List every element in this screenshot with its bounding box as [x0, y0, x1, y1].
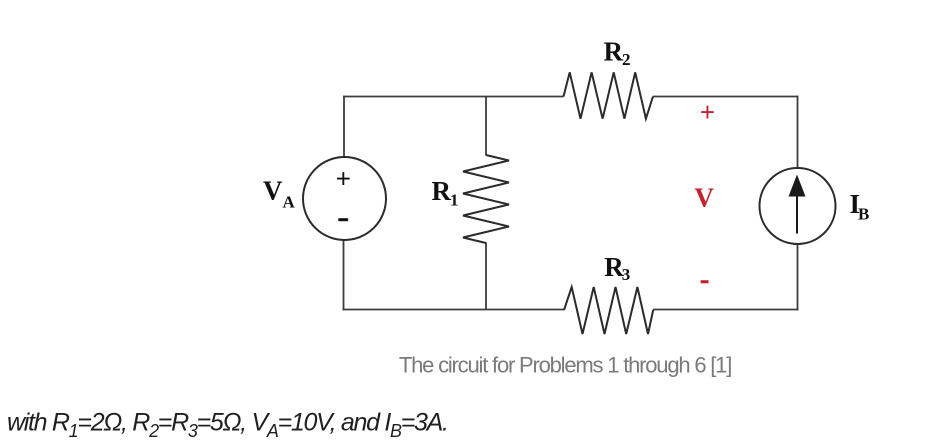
wire top-right horizontal: [653, 96, 798, 98]
wire left rail bottom: [343, 240, 345, 310]
wire R1 stem top: [485, 97, 487, 156]
svg-text:R: R: [432, 176, 452, 206]
node minus (red): [701, 280, 709, 283]
VA minus sign: [338, 218, 348, 221]
svg-text:V: V: [263, 176, 283, 206]
wire R1 stem bottom: [485, 243, 487, 310]
wire right rail bottom: [797, 244, 799, 311]
svg-text:The circuit for Problems 1 thr: The circuit for Problems 1 through 6 [1]: [399, 353, 731, 378]
resistor R2: [564, 72, 654, 118]
voltage source VA circle: [303, 157, 386, 240]
wire top-left horizontal: [343, 96, 564, 98]
svg-text:3: 3: [622, 265, 631, 284]
wire bottom-right horizontal: [653, 309, 798, 311]
svg-text:with R1=2Ω, R2=R3=5Ω, VA=10V,: with R1=2Ω, R2=R3=5Ω, VA=10V, and IB=3A.: [7, 408, 448, 441]
current source IB circle: [760, 168, 836, 244]
wire right rail top: [797, 96, 799, 169]
wire bottom-left horizontal: [343, 309, 565, 311]
svg-text:2: 2: [622, 50, 631, 69]
svg-text:+: +: [700, 97, 715, 127]
svg-text:1: 1: [450, 191, 459, 210]
svg-text:A: A: [283, 193, 296, 212]
IB arrow head: [789, 175, 806, 197]
resistor R1: [463, 155, 509, 243]
svg-text:B: B: [858, 205, 869, 224]
IB arrow shaft: [796, 192, 798, 234]
svg-text:+: +: [336, 164, 351, 194]
wire left rail top: [343, 96, 345, 158]
svg-text:R: R: [604, 36, 624, 66]
resistor R3: [564, 287, 653, 334]
svg-text:V: V: [695, 183, 715, 213]
